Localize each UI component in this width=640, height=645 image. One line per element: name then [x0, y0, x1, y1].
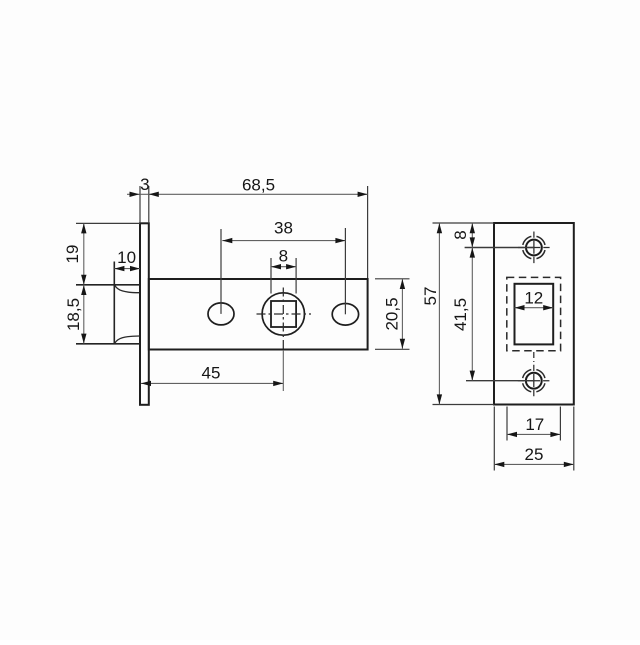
extension lines plate thickness [139, 186, 141, 223]
top screw hole [518, 232, 550, 264]
svg-text:25: 25 [525, 445, 544, 464]
dim 20,5 line [400, 279, 405, 349]
bolt bottom bevel curve [115, 336, 140, 343]
left oval hole [208, 303, 234, 325]
plate bottom edge extension [433, 404, 495, 406]
svg-text:38: 38 [274, 219, 293, 238]
spindle vertical centerline [282, 288, 284, 349]
dim 8 line (right view) [470, 223, 475, 247]
strike plate front view [494, 223, 574, 405]
svg-text:10: 10 [117, 248, 136, 267]
svg-text:18,5: 18,5 [64, 298, 83, 331]
extension lines dim 8 square [270, 258, 272, 294]
spindle centerline extension below body [282, 350, 284, 391]
svg-text:17: 17 [525, 415, 544, 434]
svg-text:19: 19 [63, 245, 82, 264]
extension line right oval center [344, 228, 346, 314]
extension line 68.5 right [367, 186, 369, 278]
faceplate side view (vertical bar) [140, 223, 149, 404]
dim 25 line [494, 462, 574, 467]
latch opening (solid rect) [515, 284, 554, 345]
dim 10 line (bolt protrusion) [114, 266, 140, 271]
spindle circle [262, 293, 304, 335]
svg-text:8: 8 [279, 247, 288, 266]
dim 12 line [515, 305, 554, 310]
svg-text:20,5: 20,5 [383, 297, 402, 330]
dim 20,5 extension lines [375, 278, 410, 280]
svg-text:8: 8 [451, 230, 470, 239]
bolt top bevel curve [115, 285, 140, 292]
dim 17 line [507, 432, 560, 437]
dim 68,5 line [149, 192, 368, 197]
extension lines 19 and 18,5 [76, 222, 140, 224]
dim 57 line [437, 223, 442, 404]
latch bolt top line [76, 284, 140, 286]
svg-text:3: 3 [140, 175, 149, 194]
bottom screw hole [518, 365, 550, 397]
latch body (horizontal rectangle) [149, 279, 368, 350]
plate top edge extension [433, 222, 495, 224]
spindle square hole [271, 301, 296, 327]
dim 17 extension lines [506, 407, 508, 441]
svg-text:12: 12 [524, 288, 543, 307]
right oval hole [332, 304, 358, 326]
extension line left oval center [220, 229, 222, 314]
dim 3 line [127, 192, 149, 197]
top hole center extension [465, 247, 534, 249]
dim 18,5 line [81, 285, 86, 344]
latch bolt bottom line [76, 343, 140, 345]
dim 8 line (square width) [271, 264, 296, 269]
latch bolt left edge [113, 262, 115, 344]
bottom hole center extension [466, 380, 534, 382]
centerline between opening and bottom hole [533, 352, 535, 362]
svg-text:45: 45 [202, 364, 221, 383]
dim 19 line [81, 223, 86, 284]
svg-text:57: 57 [421, 287, 440, 306]
svg-text:68,5: 68,5 [242, 176, 275, 195]
dim 45 line [141, 381, 283, 386]
dim 41,5 line [470, 248, 475, 381]
svg-text:41,5: 41,5 [451, 298, 470, 331]
dim 25 extension lines [493, 407, 495, 471]
spindle horizontal centerline [257, 313, 312, 315]
dashed cutout region [507, 277, 561, 350]
dim 38 line [222, 238, 345, 243]
